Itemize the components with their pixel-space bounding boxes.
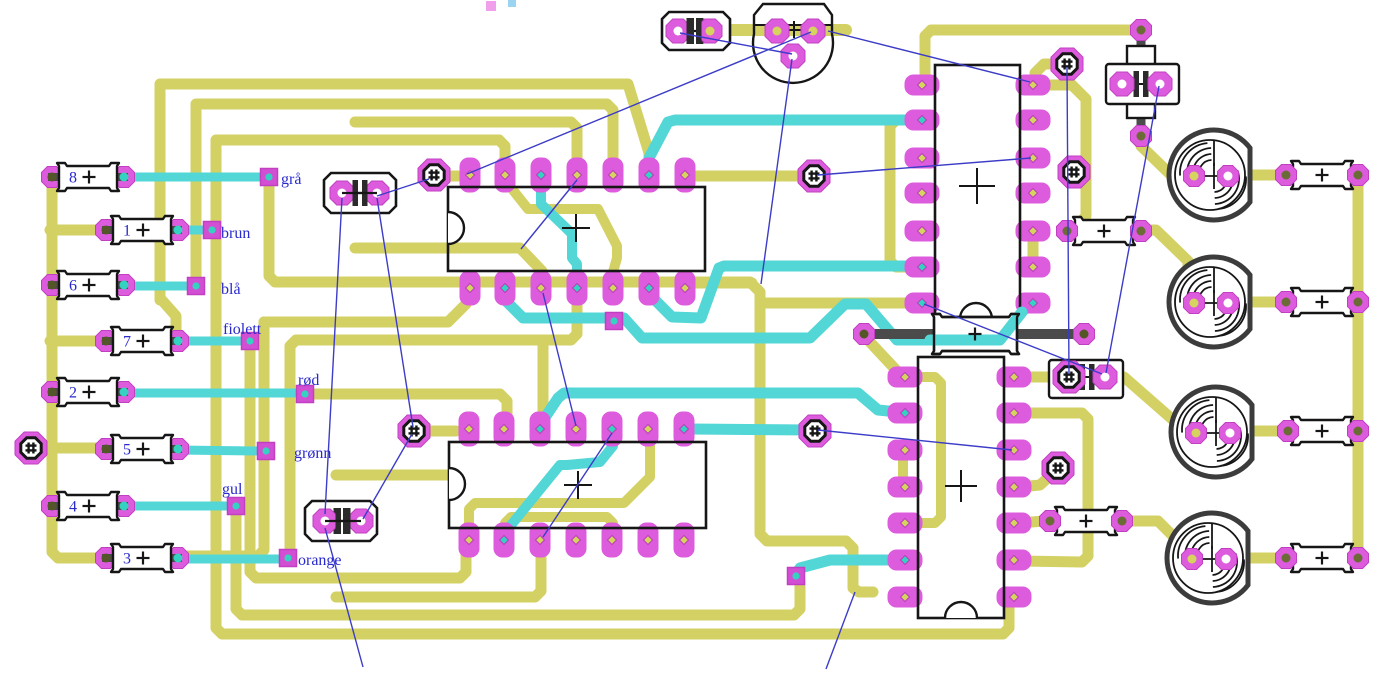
svg-text:4: 4 xyxy=(69,499,77,516)
pad R7r.1 xyxy=(1278,421,1299,442)
IC3 pin 11 (right) xyxy=(1016,183,1051,204)
wire R7 to fiolett xyxy=(178,337,244,346)
wire H1 jog to R7 right pad xyxy=(160,298,176,334)
pad R3.2 xyxy=(168,548,189,569)
pad C1.1 xyxy=(666,19,690,43)
via M1a xyxy=(418,159,450,191)
pad R2.1 xyxy=(42,382,63,403)
wire IC3 t1 riser top rail xyxy=(925,30,1133,80)
op-amp U1 xyxy=(448,187,705,271)
wire fiolett to IC2 b1 xyxy=(250,346,466,578)
wire Vd y340 to IC1 b4 xyxy=(290,288,577,551)
wire left supply bus xyxy=(52,172,100,558)
IC3 pin 2 (left) xyxy=(905,110,940,131)
IC4 pin 1 (left) xyxy=(888,367,923,388)
wire IC2 internal S xyxy=(507,432,613,530)
pad R6.1 xyxy=(42,275,63,296)
ratsnest C2 to via M1b xyxy=(377,198,413,427)
node blaa xyxy=(188,278,205,295)
resistor R3 xyxy=(102,554,182,562)
pad R11.2 xyxy=(1131,126,1152,147)
IC3 pin 1 (left) xyxy=(905,75,940,96)
wire R8r to coil L4 xyxy=(1124,521,1190,556)
resistor R6 xyxy=(48,281,128,289)
ratsnest via M2a to IC3 r3 xyxy=(818,158,1031,175)
wire stub248 to IC1 b3 xyxy=(355,248,542,283)
op-amp U3 xyxy=(935,65,1020,319)
IC3 pin 14 (right) xyxy=(1016,75,1051,96)
wire jumper bar xyxy=(868,329,1078,339)
IC4 pin 9 (right) xyxy=(997,550,1032,571)
wire IC1 internal S xyxy=(541,178,577,282)
wire coil L3 to R7r xyxy=(1232,426,1286,437)
IC2 pin 1 (bottom) xyxy=(459,523,480,558)
IC1 pin 1 (bottom) xyxy=(460,271,481,306)
pad C3.2 xyxy=(349,509,373,533)
wire R6 to blaa xyxy=(124,282,190,291)
wire stub122 to IC1 pin4 xyxy=(355,122,577,160)
speaker LS2 xyxy=(1169,257,1250,347)
op-amp U2 xyxy=(449,442,706,528)
wire Vc top to IC1 b1 xyxy=(264,296,468,330)
IC1 pin 11 (top) xyxy=(567,158,588,193)
IC1 pin 7 (bottom) xyxy=(675,271,696,306)
IC1 pin 10 (top) xyxy=(603,158,624,193)
pad R1.2 xyxy=(168,220,189,241)
wire IC4 2r-6r bracket xyxy=(1018,413,1088,562)
IC2 pin 6 (bottom) xyxy=(638,523,659,558)
wire IC1 internal xyxy=(505,180,617,283)
node orange xyxy=(280,550,297,567)
IC2 pin 3 (bottom) xyxy=(530,523,551,558)
transistor Q1 xyxy=(753,4,833,83)
wire IC1 t6 to IC3 l2 xyxy=(649,120,908,170)
wire IC1 b6 to IC3 l6 xyxy=(651,266,908,318)
speaker LS3 xyxy=(1171,387,1252,477)
resistor R9 xyxy=(1064,227,1144,235)
svg-text:gul: gul xyxy=(222,481,243,498)
pad C3.1 xyxy=(313,509,337,533)
ratsnest Q1 to IC1 b7 xyxy=(761,59,792,284)
wire via to IC2 t1 xyxy=(414,426,456,437)
IC3 pin 12 (right) xyxy=(1016,148,1051,169)
IC4 pin 13 (right) xyxy=(997,403,1032,424)
pad C6.1 xyxy=(1110,72,1134,96)
via M1b xyxy=(398,415,430,447)
wire C5 bottom to coil L1 xyxy=(1141,140,1186,176)
wire bar pad to IC4 l1 xyxy=(868,340,903,377)
IC1 pin 6 (bottom) xyxy=(639,271,660,306)
wire R5 to groenn xyxy=(178,450,260,451)
via T1 xyxy=(1051,48,1083,80)
svg-text:8: 8 xyxy=(69,170,77,187)
IC2 pin 14 (top) xyxy=(459,412,480,447)
IC3 pin 4 (left) xyxy=(905,183,940,204)
ratsnest C3 to bottom xyxy=(325,528,363,667)
resistor R6r xyxy=(1282,298,1362,306)
wire IC4 1r to via T3 xyxy=(1020,372,1056,383)
svg-text:grønn: grønn xyxy=(294,445,331,462)
pad R5.2 xyxy=(168,439,189,460)
via T3 xyxy=(1053,361,1085,393)
IC4 pin 4 (left) xyxy=(888,477,923,498)
wire R2 to roed xyxy=(124,389,298,398)
IC2 pin 9 (top) xyxy=(638,412,659,447)
wire IC1 b7 link xyxy=(690,278,752,289)
wire R1 to brun xyxy=(178,226,206,235)
svg-text:7: 7 xyxy=(123,334,131,351)
wire via V1 to R5 left xyxy=(31,443,106,454)
IC4 pin 11 (right) xyxy=(997,477,1032,498)
wire H3 V3 bottom bus xyxy=(216,140,1009,634)
ratsnest via M1b to C3 xyxy=(363,434,412,519)
node brun xyxy=(204,222,221,239)
resistor R5 xyxy=(102,445,182,453)
pad R7.2 xyxy=(168,331,189,352)
wire IC4 internal b (pin3-4 link) xyxy=(898,453,908,484)
wire y340 drop to IC2 t3 xyxy=(538,340,549,424)
pad C7.2 xyxy=(1093,365,1117,389)
IC1 pin 3 (bottom) xyxy=(531,271,552,306)
pad R5r.1 xyxy=(1276,165,1297,186)
wire bus to R7 left xyxy=(50,336,106,347)
ratsnest IC3 l7 to C7 xyxy=(924,304,1102,374)
wire IC3 1r to R9 xyxy=(1040,85,1086,230)
IC1 pin 14 (top) xyxy=(460,158,481,193)
resistor R9r xyxy=(1282,554,1362,562)
IC1 pin 8 (top) xyxy=(675,158,696,193)
svg-text:5: 5 xyxy=(123,442,131,459)
wire stub to IC2 notch xyxy=(336,470,452,481)
IC3 pin 6 (left) xyxy=(905,257,940,278)
pad R8.1 xyxy=(42,167,63,188)
pad Q1.2 xyxy=(801,19,825,43)
resistor R4 xyxy=(48,502,128,510)
resistor R7 xyxy=(102,337,182,345)
node fiolett xyxy=(242,333,259,350)
pad R5.1 xyxy=(96,439,117,460)
pad R7.1 xyxy=(96,331,117,352)
pad R4.1 xyxy=(42,496,63,517)
wire IC2 t3 to IC4 l2 xyxy=(541,393,898,426)
wire bus to R1 left xyxy=(50,225,106,236)
wire IC4 5r to R8r xyxy=(1020,521,1048,523)
pad R3.1 xyxy=(96,548,117,569)
pad R8.2 xyxy=(114,167,135,188)
ratsnest via M2b to IC4 r3 xyxy=(818,430,1012,450)
wire IC1 t7 to via xyxy=(697,171,800,182)
ratsnest C2 to C3 xyxy=(325,198,342,514)
ratsnest C2 to via M1a xyxy=(377,179,429,196)
wire Vc vertical xyxy=(184,322,264,556)
via V1 xyxy=(15,432,47,464)
svg-text:fiolett: fiolett xyxy=(223,321,262,338)
IC4 pin 8 (right) xyxy=(997,587,1032,608)
resistor R11 (vertical) xyxy=(1137,26,1146,136)
pad R11.1 xyxy=(1131,20,1152,41)
pad R9.1 xyxy=(1057,221,1078,242)
IC4 pin 10 (right) xyxy=(997,513,1032,534)
via M2b xyxy=(799,415,831,447)
wire IC4 internal a xyxy=(918,377,941,523)
pad R2.2 xyxy=(114,382,135,403)
IC4 pin 12 (right) xyxy=(997,440,1032,461)
node faint pad top xyxy=(486,1,496,11)
IC2 pin 10 (top) xyxy=(602,412,623,447)
node node K1 xyxy=(606,313,623,330)
svg-text:brun: brun xyxy=(221,225,250,242)
svg-text:6: 6 xyxy=(69,278,77,295)
pad R5r.2 xyxy=(1348,165,1369,186)
capacitor C6 xyxy=(1106,64,1179,104)
wire roed to IC2 t2 xyxy=(313,394,507,420)
ratsnest stub bottom xyxy=(826,592,855,669)
IC3 pin 13 (right) xyxy=(1016,110,1051,131)
op-amp U4 xyxy=(918,357,1004,618)
wire branch y303 to IC3 xyxy=(760,298,915,309)
wire IC3 C-link xyxy=(890,120,906,267)
IC1 pin 5 (bottom) xyxy=(603,271,624,306)
wire capT3 to coil L3 xyxy=(1106,377,1190,430)
IC1 pin 12 (top) xyxy=(531,158,552,193)
resistor R5r xyxy=(1282,171,1362,179)
speaker LS1 xyxy=(1169,130,1250,220)
IC2 pin 8 (top) xyxy=(674,412,695,447)
resistor R8 xyxy=(48,173,128,181)
wire via T1 to IC3 pin1r xyxy=(1035,64,1063,80)
svg-text:grå: grå xyxy=(281,171,301,188)
wire via M1a to IC1 pin1 xyxy=(436,171,458,182)
ratsnest IC1 t1 to Q1 xyxy=(467,32,811,174)
IC3 pin 7 (left) xyxy=(905,293,940,314)
svg-text:blå: blå xyxy=(221,281,241,298)
pad R1.1 xyxy=(96,220,117,241)
wire capT right pad stub xyxy=(712,24,846,36)
wire stub to IC2 b3 xyxy=(336,548,541,597)
resistor R8r xyxy=(1046,517,1126,525)
pad R6.2 xyxy=(114,275,135,296)
IC2 pin 11 (top) xyxy=(566,412,587,447)
pad Q1.3 xyxy=(781,44,805,68)
wire IC2 t7 to via M2 xyxy=(690,429,810,430)
IC4 pin 3 (left) xyxy=(888,440,923,461)
pad Q1.1 xyxy=(765,19,789,43)
pad R6r.2 xyxy=(1348,292,1369,313)
wire IC2 internal b xyxy=(505,517,613,534)
wire R8 to graa xyxy=(124,173,262,182)
resistor R2 xyxy=(48,388,128,396)
wire coil L4 to R9r xyxy=(1230,553,1284,564)
pad C2.2 xyxy=(365,181,389,205)
ratsnest IC1 t4 stub xyxy=(521,180,577,249)
pad jumper left xyxy=(854,324,875,345)
IC1 pin 4 (bottom) xyxy=(567,271,588,306)
IC2 pin 13 (top) xyxy=(494,412,515,447)
wire gul to pad K2 xyxy=(236,512,800,615)
svg-text:2: 2 xyxy=(69,385,77,402)
via B2 xyxy=(1042,452,1074,484)
IC2 pin 2 (bottom) xyxy=(494,523,515,558)
ratsnest via T1 to via T3 xyxy=(1067,67,1069,374)
IC3 pin 5 (left) xyxy=(905,221,940,242)
IC2 pin 5 (bottom) xyxy=(602,523,623,558)
IC4 pin 6 (left) xyxy=(888,550,923,571)
pad R8r.2 xyxy=(1112,511,1133,532)
svg-text:orange: orange xyxy=(298,552,342,569)
via T2 xyxy=(1058,156,1090,188)
node roed xyxy=(297,386,314,403)
svg-text:rød: rød xyxy=(298,372,319,389)
wire IC1 b2 long xyxy=(505,292,1031,340)
pad jumper right xyxy=(1074,324,1095,345)
svg-text:1: 1 xyxy=(123,223,131,240)
pad R8r.1 xyxy=(1040,511,1061,532)
wire coil L1 to R5r xyxy=(1230,170,1284,181)
capacitor C7 xyxy=(1049,360,1123,398)
speaker LS4 xyxy=(1167,513,1248,603)
node groenn xyxy=(258,443,275,460)
IC4 pin 7 (left) xyxy=(888,587,923,608)
capacitor C3 xyxy=(305,501,377,541)
IC4 pin 5 (left) xyxy=(888,513,923,534)
pad C1.2 xyxy=(698,19,722,43)
ratsnest C1 to Q1 xyxy=(680,33,792,54)
IC2 pin 7 (bottom) xyxy=(674,523,695,558)
pad R9.2 xyxy=(1131,221,1152,242)
wire IC2 internal a xyxy=(469,434,650,529)
resistor R1 xyxy=(102,226,182,234)
node gul xyxy=(228,498,245,515)
IC1 pin 2 (bottom) xyxy=(495,271,516,306)
ratsnest IC2 t5 to b3 xyxy=(543,433,612,537)
pad C2.1 xyxy=(330,181,354,205)
IC3 pin 3 (left) xyxy=(905,148,940,169)
wire pad K2 to IC4 l6 xyxy=(797,560,898,573)
wire R4 to gul xyxy=(124,502,230,511)
resistor R10 (jumper) xyxy=(932,314,1019,354)
ratsnest stub to IC3 xyxy=(828,31,1030,82)
wire H1 to IC1 pin6 xyxy=(160,84,649,300)
wire IC4 4r to via B2 xyxy=(1020,474,1052,487)
IC1 pin 13 (top) xyxy=(495,158,516,193)
IC2 pin 12 (top) xyxy=(530,412,551,447)
IC3 pin 8 (right) xyxy=(1016,293,1051,314)
resistor R7r xyxy=(1282,427,1362,435)
ratsnest IC1 b3 to IC2 t4 xyxy=(543,293,576,426)
wire R9 to coil L2 xyxy=(1141,230,1188,294)
wire graa down-right xyxy=(269,183,873,592)
wire coil L2 to R6r xyxy=(1230,297,1284,308)
pad R6r.1 xyxy=(1276,292,1297,313)
pad R7r.2 xyxy=(1348,421,1369,442)
wire IC3 5r-6r link xyxy=(1028,235,1039,264)
pad R9r.2 xyxy=(1348,548,1369,569)
capacitor C2 xyxy=(324,173,396,213)
pad C6.2 xyxy=(1148,72,1172,96)
svg-text:3: 3 xyxy=(123,551,131,568)
via M2a xyxy=(798,160,830,192)
pad R4.2 xyxy=(114,496,135,517)
wire H3 to IC1 pin2 xyxy=(499,140,505,162)
IC4 pin 14 (right) xyxy=(997,367,1032,388)
IC3 pin 9 (right) xyxy=(1016,257,1051,278)
IC3 pin 10 (right) xyxy=(1016,221,1051,242)
node graa xyxy=(261,169,278,186)
wire R3 to orange xyxy=(178,555,282,564)
wire H2 blaa to IC1 pin5 xyxy=(196,104,613,280)
capacitor C1 xyxy=(662,12,730,50)
pad R9r.1 xyxy=(1276,548,1297,569)
IC4 pin 2 (left) xyxy=(888,403,923,424)
node node K2 xyxy=(788,568,805,585)
node faint dot top xyxy=(508,0,516,7)
IC2 pin 4 (bottom) xyxy=(566,523,587,558)
wire right edge bus xyxy=(1353,180,1364,556)
ratsnest C6 to C7 xyxy=(1106,86,1159,373)
IC1 pin 9 (top) xyxy=(639,158,660,193)
